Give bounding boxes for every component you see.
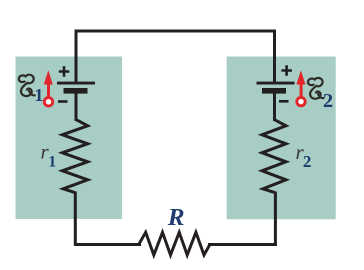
- resistor r2 (zigzag): [262, 120, 286, 193]
- battery 2 negative plate: [262, 88, 286, 94]
- svg-text:R: R: [167, 204, 185, 231]
- wire: bottom rail left segment: [76, 243, 140, 246]
- wire: battery 1 negative terminal to r1: [75, 92, 78, 121]
- svg-text:2: 2: [323, 90, 333, 112]
- resistor r1 (zigzag): [62, 120, 87, 193]
- svg-text:1: 1: [34, 85, 43, 105]
- wire: battery 2 negative terminal to r2: [273, 92, 276, 121]
- battery 2 positive plate: [257, 82, 295, 85]
- battery 1 − sign: [58, 100, 68, 103]
- label r2: [296, 140, 312, 171]
- svg-text:1: 1: [48, 153, 56, 170]
- wire: battery 1 positive terminal up to top rail: [75, 31, 78, 83]
- wire: bottom rail right segment: [210, 243, 276, 246]
- EMF ℰ2 tail node (open circle): [297, 97, 305, 105]
- label ℰ2 (script E): [308, 78, 324, 99]
- wire: top rail down to battery 2 positive terminal: [273, 31, 276, 83]
- battery 2 − sign: [279, 100, 289, 103]
- wire: bottom rail up to r2: [274, 192, 277, 246]
- label r1: [41, 140, 57, 171]
- battery 1 positive plate: [57, 82, 95, 85]
- battery 1 + sign: [59, 66, 70, 77]
- battery 1 negative plate: [64, 88, 88, 94]
- battery 1 enclosure (teal box): [16, 57, 123, 220]
- wire: r1 down to bottom rail: [74, 192, 77, 246]
- battery 2 enclosure (teal box): [227, 57, 336, 220]
- EMF ℰ1 direction arrow (red, pointing up): [44, 70, 53, 97]
- wire: top rail: [76, 30, 275, 33]
- resistor R (zigzag): [139, 232, 210, 255]
- battery 2 + sign: [281, 65, 292, 76]
- EMF ℰ1 tail node (open circle): [44, 98, 52, 106]
- label ℰ1 (script E): [19, 75, 35, 96]
- svg-text:2: 2: [303, 152, 312, 171]
- EMF ℰ2 direction arrow (red, pointing up): [296, 70, 305, 97]
